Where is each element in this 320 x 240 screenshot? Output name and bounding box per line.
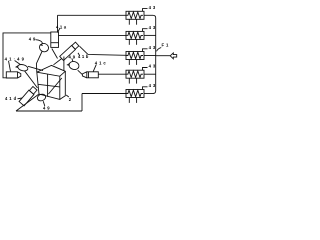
svg-text:4 9: 4 9 xyxy=(29,36,36,41)
svg-text:4 3: 4 3 xyxy=(149,83,156,88)
svg-text:4 1 c: 4 1 c xyxy=(95,60,107,65)
svg-text:4 3: 4 3 xyxy=(149,5,156,10)
svg-text:4 1 · 4 9: 4 1 · 4 9 xyxy=(5,56,25,61)
svg-text:4 1 a: 4 1 a xyxy=(56,24,67,29)
svg-text:4 9: 4 9 xyxy=(69,54,76,59)
svg-text:4 9: 4 9 xyxy=(43,105,50,110)
svg-text:4 1 d: 4 1 d xyxy=(5,96,17,101)
svg-text:4 1 b: 4 1 b xyxy=(78,54,89,59)
svg-text:F 1: F 1 xyxy=(162,43,170,48)
svg-text:4 3: 4 3 xyxy=(149,64,156,69)
svg-text:2: 2 xyxy=(69,97,72,102)
svg-text:4 3: 4 3 xyxy=(149,45,156,50)
svg-text:4 3: 4 3 xyxy=(149,25,156,30)
